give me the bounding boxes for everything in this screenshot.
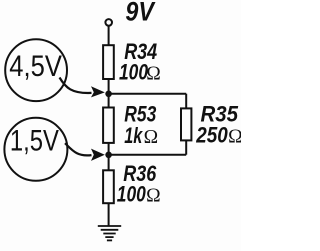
svg-text:4,5V: 4,5V [9, 50, 62, 83]
arrow from 1,5V balloon to node B [65, 143, 92, 155]
svg-text:9V: 9V [125, 0, 155, 27]
ground [98, 226, 121, 240]
callout balloon 4,5V circle [5, 39, 67, 101]
svg-text:Ω: Ω [144, 127, 159, 148]
resistor R53 body [103, 108, 114, 143]
svg-text:Ω: Ω [146, 63, 161, 84]
resistor R36 body [103, 170, 114, 203]
wire R53 to R36 [108, 143, 110, 171]
svg-text:100: 100 [119, 59, 148, 84]
arrow from 4,5V balloon to node A [60, 78, 92, 93]
wire R34 to R53 [108, 79, 110, 108]
svg-text:100: 100 [117, 182, 146, 207]
power terminal 9V [105, 19, 112, 26]
resistor R34 body [103, 45, 114, 79]
svg-text:Ω: Ω [146, 186, 161, 207]
svg-text:1k: 1k [124, 123, 143, 148]
svg-text:1,5V: 1,5V [10, 125, 59, 158]
svg-text:250: 250 [195, 123, 227, 148]
node B junction dot [105, 152, 112, 159]
wire R35 to branch bottom [185, 140, 187, 154]
wire branch top to R35 [185, 94, 187, 109]
wire R36 to ground [108, 203, 110, 226]
wire terminal to R34 [108, 26, 110, 45]
callout balloon 1,5V circle [4, 118, 67, 181]
svg-text:Ω: Ω [228, 127, 241, 148]
node A junction dot [105, 91, 112, 98]
wire node A to R35 branch [109, 93, 187, 95]
resistor R35 body [181, 108, 191, 140]
wire node B to R35 branch [109, 154, 187, 156]
